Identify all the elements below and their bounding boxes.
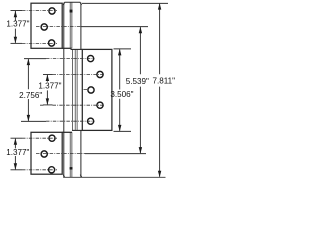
arrow 3.506 up [118,49,121,56]
ext line dim 2.756 bottom [21,120,46,122]
arrow L1 down [14,37,17,44]
hinge pin line left [69,2,71,177]
ext line dim 7.811 top [82,2,168,4]
hole C3 bottom-left leaf bottom [49,167,55,173]
arrow 3.506 down [118,125,121,131]
right leaf bottom edge extension toward barrel [72,129,82,131]
centerline hole B2 [53,74,105,76]
barrel top cap [63,2,81,5]
dim line L1 1.377 [14,11,16,43]
arrow C up [46,75,49,82]
pin mark bottom [70,167,73,169]
ext line dim 5.539 bottom [85,153,146,155]
svg-text:1.377": 1.377" [6,148,29,157]
hole A2 top-left leaf middle [41,24,47,30]
ext line dim 5.539 top [81,26,148,28]
arrow C down [46,98,49,105]
ext bar dim 3.506 bottom [114,130,132,132]
ext line dim 7.811 bottom [63,176,165,178]
hole B5 right leaf [88,118,94,124]
svg-text:3.506": 3.506" [110,90,133,99]
ext bar dim C top [43,74,53,76]
svg-text:1.377": 1.377" [6,19,29,28]
ext bar dim 3.506 top [114,48,132,50]
right leaf knuckle bend lines (middle barrel segment) [73,49,78,130]
barrel right side [80,3,82,178]
screw holes: rings [41,8,103,173]
hole C1 bottom-left leaf top [49,135,55,141]
centerline hole C3 [22,169,57,171]
centerline hole B1 [46,58,95,60]
centerline hole A2 [36,26,81,28]
arrow 7.811 up [158,3,161,10]
svg-text:1.377": 1.377" [38,82,61,91]
arrow 5.539 up [139,27,142,34]
svg-text:2.756": 2.756" [19,91,42,100]
dim line C 1.377 [46,75,48,104]
dim line L2 1.377 [14,139,16,170]
centerline hole C1 [22,137,57,139]
hinge pin line right [71,2,73,177]
arrow 5.539 down [139,147,142,154]
centerline hole B4 [40,104,104,106]
arrow 2.756 down [27,115,30,122]
centerlines dash-dot [22,11,104,170]
ext bar dim L2 bottom [11,169,23,171]
dim line 5.539 [139,27,141,153]
centerline hole A3 [22,42,57,44]
hole B3 right leaf [88,87,94,93]
dimension arrowheads [14,3,162,177]
hole B1 right leaf [88,56,94,62]
ext line dim 2.756 top [24,58,46,60]
centerline hole A1 [22,10,57,12]
bottom-left leaf top edge extension into barrel [62,131,72,133]
hole A3 top-left leaf bottom [49,40,55,46]
pin mark top [70,10,73,13]
svg-text:5.539": 5.539" [126,77,149,86]
ext bar dim L1 bottom [11,42,23,44]
centerline hole B5 [46,120,95,122]
arrow L2 down [14,163,17,170]
svg-text:7.811": 7.811" [153,77,176,86]
ext bar dim C bottom [43,104,53,106]
barrel bottom cap [63,175,82,178]
arrow L2 up [14,138,17,145]
arrow L1 up [14,11,17,18]
centerline hole B3 [84,89,89,91]
bottom-left leaf [31,132,62,174]
arrow 7.811 down [158,171,161,178]
ext bar dim L2 top [11,137,23,139]
hole B4 right leaf [97,102,103,108]
hole C2 bottom-left leaf middle [41,151,47,157]
hole A1 top-left leaf top [49,8,55,14]
ext bar dim L1 top [11,10,23,12]
top-left leaf [31,3,62,48]
barrel left side [63,3,65,178]
dim line 7.811 [159,4,161,177]
dim line 3.506 [119,49,121,130]
top-left leaf bottom edge extension into barrel [62,47,71,49]
dimension lines and extension lines [11,3,169,177]
right leaf [82,49,112,130]
hole B2 right leaf [97,71,103,77]
centerline hole C2 [36,153,85,155]
dim line 2.756 [27,59,29,121]
right leaf top edge extension toward barrel [71,48,83,50]
arrow 2.756 up [27,59,30,66]
